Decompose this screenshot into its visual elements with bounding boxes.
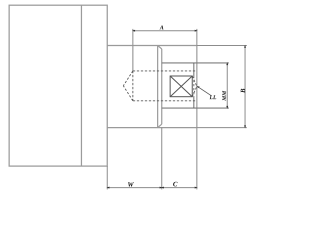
label B <box>241 89 245 93</box>
dimension MM <box>226 63 228 108</box>
chamfer bottom <box>158 124 162 127</box>
inner slot line hidden portion (dashed) <box>193 76 195 97</box>
dimensions W and C <box>107 128 197 190</box>
W-C dim line <box>107 187 197 189</box>
set screw point cone lower (dashed) <box>192 86 197 96</box>
B top extension <box>197 45 247 47</box>
B arrows <box>244 45 246 129</box>
A left extension <box>132 29 134 46</box>
label MM <box>222 91 226 101</box>
mechanical drawing: weld-on hub section with tapped hole, keyway square and dimensions <box>0 0 250 193</box>
bore pocket lines <box>162 63 229 108</box>
keyway square with cross <box>170 76 192 97</box>
MM dim line <box>226 63 228 108</box>
hub step line <box>157 46 159 128</box>
LL leader arrowhead <box>197 86 200 88</box>
hub outline (right section view) <box>107 46 197 128</box>
pocket bottom / MM extension <box>162 107 229 109</box>
B dim line <box>244 46 246 128</box>
chamfer top <box>158 46 162 49</box>
dimension B <box>197 46 247 128</box>
label A <box>159 25 163 29</box>
drill cone lower <box>123 86 132 101</box>
hub bottom edge <box>107 127 197 129</box>
label LL <box>209 95 216 99</box>
label LL with leader <box>197 86 211 95</box>
plate outline (left large rectangle) <box>9 5 107 166</box>
A right extension <box>196 29 198 46</box>
C right extension <box>196 128 198 190</box>
W/C middle extension <box>161 128 163 190</box>
pocket top / MM extension <box>162 62 229 64</box>
hole flat end <box>132 71 134 101</box>
plate inner face line <box>80 5 82 166</box>
A dim line <box>133 30 197 32</box>
MM arrows <box>226 62 228 109</box>
W and C arrows <box>106 187 197 189</box>
barrel inner line <box>161 49 163 124</box>
inner slot line near right face (solid above/below screw) <box>193 63 195 108</box>
B bottom extension <box>197 127 247 129</box>
hole bottom line <box>133 100 197 102</box>
hole top line <box>133 70 197 72</box>
drill cone upper <box>123 71 132 86</box>
hub top edge <box>107 45 197 47</box>
W left extension (below plate edge) <box>106 166 108 189</box>
hole end face line <box>132 46 134 71</box>
hub right face <box>196 46 198 128</box>
A arrows <box>132 30 198 32</box>
set screw point cone upper (dashed) <box>192 76 197 86</box>
tapped hole (hidden dashed lines) <box>123 71 196 101</box>
label C <box>173 182 177 187</box>
LL leader line <box>197 86 211 95</box>
dimension A <box>133 29 197 46</box>
label W <box>128 182 134 187</box>
